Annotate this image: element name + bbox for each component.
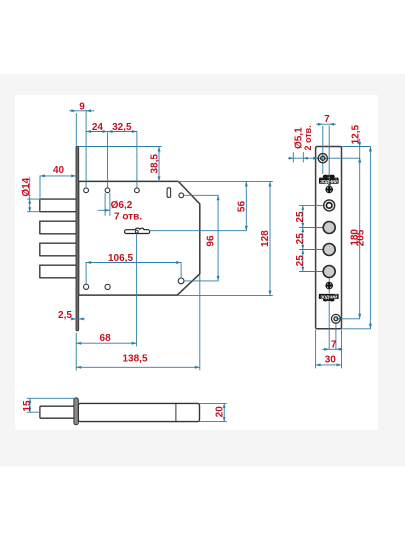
arrows dim 7 top <box>318 123 323 126</box>
svg-text:20: 20 <box>215 406 226 418</box>
arrows dim 68 <box>76 342 81 345</box>
dim line 20 <box>223 403 225 421</box>
leader d5,1 <box>289 157 360 159</box>
ext lines body right (20) <box>200 402 227 404</box>
arrows dim 7 bottom <box>324 348 329 351</box>
ext lines 25 chain <box>300 204 324 206</box>
dim line 25 chain <box>302 205 304 271</box>
svg-text:205: 205 <box>356 229 367 246</box>
arrows dim 128 <box>269 181 272 186</box>
phillips screw top <box>326 186 332 192</box>
ext line bottom screw down (7 bottom) <box>335 324 337 350</box>
dim line 9 <box>70 110 94 112</box>
hole A1 <box>84 188 89 193</box>
arrows dim 40 <box>40 174 45 177</box>
wire: ext line hole column 1 <box>85 110 87 187</box>
wire: ext line strip column (9 dim) <box>75 114 77 147</box>
dim line 30 <box>316 364 342 366</box>
svg-text:25: 25 <box>295 211 306 223</box>
ext line case bottom to 128 dim <box>178 295 273 297</box>
arrows dim 106,5 <box>86 261 91 264</box>
bottom screw hole <box>332 314 341 323</box>
top screw hole <box>318 154 327 163</box>
ext line strip top (38,5) <box>79 146 161 148</box>
backplate strip (front view) <box>76 146 79 330</box>
svg-text:12,5: 12,5 <box>350 125 361 145</box>
faceplate body <box>316 147 342 329</box>
svg-text:96: 96 <box>205 235 216 247</box>
svg-text:2,5: 2,5 <box>58 310 72 321</box>
dim line 12,5 + 180 <box>359 139 361 319</box>
arrows dim 180 <box>358 158 361 163</box>
arrow d5,1 leader <box>313 157 318 160</box>
hole A2 <box>105 188 110 193</box>
svg-text:68: 68 <box>100 333 112 344</box>
arrows dim 30 <box>316 363 321 366</box>
tick d5,1 b <box>302 153 304 163</box>
svg-text:40: 40 <box>53 165 65 176</box>
bolt 4 <box>40 265 77 278</box>
ext line bottom screw right (180) <box>336 318 360 320</box>
hole B3 lower right <box>178 278 184 284</box>
bolt 1 <box>40 199 77 212</box>
body divider <box>175 403 177 421</box>
arrows dim 138,5 <box>76 366 81 369</box>
lock case outline <box>79 181 200 295</box>
svg-text:106,5: 106,5 <box>108 253 133 264</box>
dim line d6,2 <box>98 209 110 211</box>
svg-text:9: 9 <box>79 102 85 113</box>
labels faceplate <box>294 114 367 366</box>
svg-text:38,5: 38,5 <box>149 154 160 174</box>
arrow dim d6,2 <box>105 209 110 212</box>
dim line 7 bottom <box>323 348 343 350</box>
arrows dim 2,5 <box>71 317 76 320</box>
arrows dim 32,5 <box>108 130 113 133</box>
dim line 2,5 <box>71 318 85 320</box>
ext lines plate sides down (30) <box>315 330 317 368</box>
center line bottom segment c <box>328 302 330 349</box>
ext line pin center (15) <box>27 411 40 413</box>
key lever shape <box>124 228 149 233</box>
cylinder hole (ring) <box>324 200 335 211</box>
ext line screw column (7 top) <box>322 126 324 174</box>
svg-text:32,5: 32,5 <box>112 122 132 133</box>
svg-text:128: 128 <box>260 230 271 247</box>
svg-text:7 отв.: 7 отв. <box>114 211 142 222</box>
ext line case right down (138,5) <box>199 275 201 370</box>
ext line 106,5 right from hole <box>180 263 182 278</box>
key lever center hole <box>135 230 138 233</box>
svg-text:56: 56 <box>236 201 247 213</box>
wire: ext line hole column 3 <box>136 132 138 188</box>
dim line 68 <box>76 342 136 344</box>
ext line small circle to 96 dim <box>184 194 218 196</box>
hole near chamfer <box>179 193 184 198</box>
svg-text:15: 15 <box>22 400 33 412</box>
svg-text:ЗОДЧИЙ: ЗОДЧИЙ <box>320 294 337 299</box>
labels main view <box>21 102 271 365</box>
brand logo bottom <box>319 294 339 302</box>
arrows dim d14 <box>28 199 31 204</box>
hole A3 <box>135 188 140 193</box>
dim line 96 <box>217 195 219 281</box>
white drawing card <box>15 95 378 430</box>
phillips screw bottom <box>326 282 332 288</box>
ext line strip top left (15) <box>27 397 74 399</box>
lock body side <box>78 403 199 421</box>
dim line 128 <box>269 181 271 295</box>
ext lines bolt1 top/bottom (d14) <box>28 198 41 200</box>
ext line plate bottom right (205) <box>342 328 371 330</box>
dim line 7 top <box>317 123 336 125</box>
dim line 24 and 32,5 <box>86 131 137 133</box>
svg-text:7: 7 <box>324 114 330 125</box>
arrows 25 chain <box>301 205 304 210</box>
ext line 106,5 left to row2 hole <box>85 263 87 284</box>
dim line d14 <box>29 178 31 212</box>
arrows dim 96 <box>217 195 220 200</box>
ext line below hole2 (d6,2) <box>104 194 106 216</box>
svg-text:7: 7 <box>331 340 337 351</box>
dim line 15 <box>29 398 31 412</box>
hole B2 <box>105 284 110 289</box>
center line bottom segment a <box>328 278 330 282</box>
svg-text:2 отв.: 2 отв. <box>303 125 313 150</box>
svg-text:25: 25 <box>295 255 306 267</box>
strip side <box>74 398 78 425</box>
hole B1 <box>84 284 89 289</box>
ext line bolt1 left (40) <box>39 176 41 198</box>
ext line key column down (68) <box>136 234 138 346</box>
svg-text:Ø6,2: Ø6,2 <box>111 200 133 211</box>
arrows dim 20 <box>223 403 226 408</box>
arrows dim 56 <box>245 181 248 186</box>
ext line strip-left down (68 and 138,5) <box>75 333 77 370</box>
bolt circle 3 <box>323 266 335 278</box>
gray band <box>0 74 405 467</box>
bolt 3 <box>40 243 77 256</box>
dim line 106,5 <box>86 262 181 264</box>
dim line 205 <box>369 147 371 329</box>
bolt 2 <box>40 221 77 234</box>
svg-text:25: 25 <box>295 233 306 245</box>
ext line case top to right dims <box>178 180 272 182</box>
dim line 138,5 <box>76 366 200 368</box>
bolt circle 2 <box>323 244 335 256</box>
svg-text:30: 30 <box>325 355 337 366</box>
center line bottom segment b <box>328 289 330 293</box>
wire: ext line hole column 2 <box>107 132 109 188</box>
arrows dim 205 <box>369 147 372 152</box>
arrows dim 24 <box>86 130 91 133</box>
dim line 40 <box>40 175 76 177</box>
dim line 38,5 <box>158 147 160 182</box>
bolt circle 1 <box>323 222 335 234</box>
svg-text:24: 24 <box>92 122 104 133</box>
ext line plate top right (205) <box>342 146 371 148</box>
brand logo top <box>319 175 339 186</box>
arrows dim 9 <box>71 109 76 112</box>
ext line lower-right hole to 96 dim <box>184 280 218 282</box>
tick d5,1 a <box>292 153 294 163</box>
center line top segment (over logo) <box>328 126 330 186</box>
arrows dim 38,5 <box>158 147 161 152</box>
arrows dim 15 <box>29 398 32 403</box>
dim line 56 <box>245 181 247 230</box>
svg-text:Ø14: Ø14 <box>21 177 32 196</box>
arrows dim 12,5 <box>358 142 361 147</box>
ext line key right to 56 dim <box>150 230 247 232</box>
svg-text:138,5: 138,5 <box>122 354 147 365</box>
bolt pin side <box>40 406 74 418</box>
slot near chamfer <box>167 188 171 198</box>
